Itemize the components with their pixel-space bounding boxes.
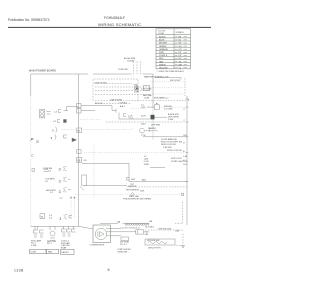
svg-text:2-BK: 2-BK <box>140 191 145 193</box>
svg-text:3-WH: 3-WH <box>144 164 150 166</box>
svg-text:DOOR AJAR SW: DOOR AJAR SW <box>161 138 177 141</box>
svg-text:3: 3 <box>59 190 61 194</box>
svg-text:POW-CRD: POW-CRD <box>118 69 128 71</box>
svg-text:3: 3 <box>59 217 61 221</box>
svg-text:COMPRESSOR: COMPRESSOR <box>90 245 105 247</box>
svg-text:L1-BK: L1-BK <box>144 98 150 100</box>
svg-text:JMP-1 J4A: JMP-1 J4A <box>129 195 139 198</box>
svg-text:FRZ DOOR: FRZ DOOR <box>171 158 182 160</box>
svg-text:DAMPER: DAMPER <box>148 127 156 130</box>
svg-text:Publication No. 5995537573: Publication No. 5995537573 <box>8 18 50 22</box>
svg-text:GREEN: GREEN <box>159 46 167 48</box>
svg-text:CODE: CODE <box>158 33 165 35</box>
svg-text:DEF SNR: DEF SNR <box>151 125 161 127</box>
svg-text:2-WH: 2-WH <box>168 119 174 121</box>
svg-text:A B C: A B C <box>120 105 126 108</box>
svg-text:DRN-TR HTR: DRN-TR HTR <box>148 248 161 250</box>
svg-text:133B: 133B <box>14 269 24 273</box>
svg-text:YELLOW: YELLOW <box>159 67 168 69</box>
svg-text:J4-1: J4-1 <box>183 164 187 166</box>
svg-text:DORR-LIGHT SW: DORR-LIGHT SW <box>171 161 188 163</box>
svg-text:EVAP: EVAP <box>61 246 67 249</box>
svg-text:2-WH: 2-WH <box>31 245 37 247</box>
svg-text:OR: OR <box>179 49 183 51</box>
svg-text:J4-1 (BK): J4-1 (BK) <box>145 227 154 229</box>
svg-text:LINE FILTER: LINE FILTER <box>110 100 123 102</box>
svg-text:FRZ-DOOR-SW: FRZ-DOOR-SW <box>167 150 182 152</box>
svg-text:LIGHT: LIGHT <box>31 252 38 254</box>
svg-text:SNR-HARN 1-2: SNR-HARN 1-2 <box>154 96 169 99</box>
svg-text:OVERLOAD: OVERLOAD <box>117 250 128 253</box>
svg-text:REF DOOR SW: REF DOOR SW <box>161 144 176 146</box>
svg-text:3: 3 <box>59 167 61 171</box>
svg-text:FAN EV: FAN EV <box>62 251 70 254</box>
svg-text:1 2 3 4 5 6 7 8 9 10 11 12: 1 2 3 4 5 6 7 8 9 10 11 12 <box>121 228 140 230</box>
svg-text:6: 6 <box>108 268 110 272</box>
svg-text:RLY-1 K2: RLY-1 K2 <box>95 103 103 105</box>
svg-text:5-BU: 5-BU <box>141 124 146 126</box>
svg-text:P: P <box>31 137 34 142</box>
svg-text:RD: RD <box>179 58 182 60</box>
svg-text:HTR-DRN 30W: HTR-DRN 30W <box>147 240 160 242</box>
svg-text:(BK): (BK) <box>142 180 146 182</box>
svg-text:WHITE: WHITE <box>159 64 166 66</box>
svg-text:1-2 CONN: 1-2 CONN <box>164 108 173 110</box>
svg-text:3: 3 <box>59 179 61 183</box>
svg-text:BLUE: BLUE <box>159 40 165 42</box>
svg-text:2-BK WH: 2-BK WH <box>163 147 172 149</box>
svg-text:CON A-B: CON A-B <box>119 102 128 105</box>
svg-text:FGHN2844LF: FGHN2844LF <box>104 16 125 20</box>
svg-text:WIRING SCHEMATIC: WIRING SCHEMATIC <box>98 22 141 27</box>
svg-text:MAIN POWER BOARD: MAIN POWER BOARD <box>29 69 56 73</box>
svg-text:DEF HTR: DEF HTR <box>128 186 137 188</box>
svg-text:4-OR: 4-OR <box>141 116 146 118</box>
svg-text:RED: RED <box>159 58 164 60</box>
svg-text:BROWN: BROWN <box>159 43 167 45</box>
svg-text:PTC 4-7: PTC 4-7 <box>120 244 127 246</box>
svg-text:SYMBOL: SYMBOL <box>176 32 185 34</box>
svg-text:HTR DEFROST: HTR DEFROST <box>126 189 140 191</box>
svg-text:HTR WH 2-BK: HTR WH 2-BK <box>158 229 172 231</box>
svg-text:PURPLE: PURPLE <box>159 55 168 57</box>
svg-text:GN: GN <box>179 46 183 48</box>
svg-text:HTR-W DEFROST DEF-THERM: HTR-W DEFROST DEF-THERM <box>123 199 151 201</box>
svg-text:* TL-1: * TL-1 <box>128 118 133 120</box>
svg-text:1-RD: 1-RD <box>141 107 146 109</box>
svg-text:WH: WH <box>179 64 183 66</box>
svg-text:2-WH: 2-WH <box>134 92 139 94</box>
svg-text:120VAC: 120VAC <box>127 60 135 63</box>
svg-text:*: * <box>133 129 134 131</box>
svg-text:FAN: FAN <box>48 251 53 254</box>
svg-text:7-TN: 7-TN <box>141 135 146 137</box>
svg-text:PINK: PINK <box>159 52 164 54</box>
svg-text:* - USED ON SOME MODELS: * - USED ON SOME MODELS <box>156 71 184 73</box>
